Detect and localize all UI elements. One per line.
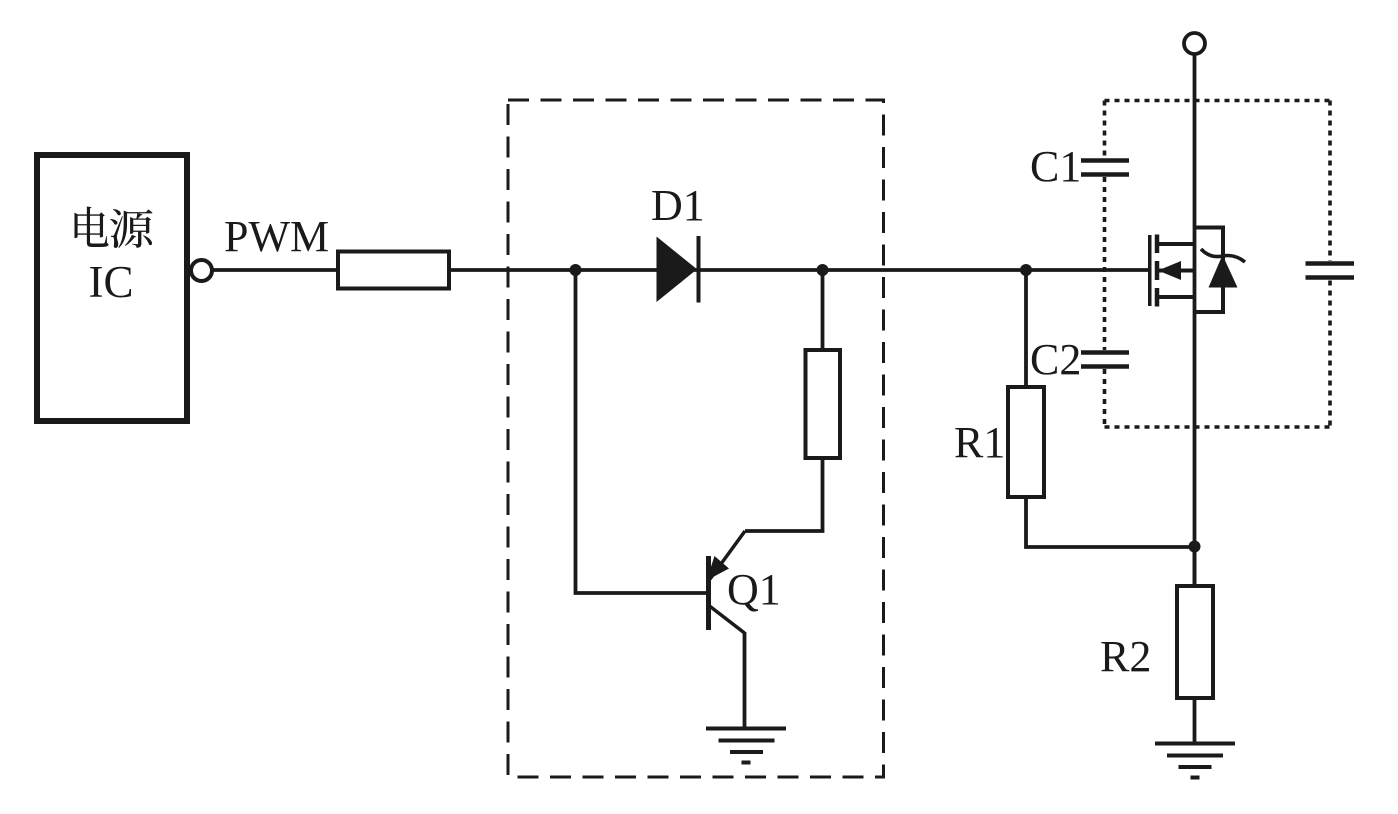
dotted box: MOSFET module outline — [1105, 101, 1331, 428]
wire: source node down to R2 — [1193, 547, 1197, 586]
svg-text:IC: IC — [89, 257, 134, 307]
wire: main gate line from resistor to MOSFET gate — [450, 268, 1148, 272]
svg-text:C2: C2 — [1030, 335, 1081, 384]
node: source junction — [1189, 541, 1201, 553]
resistor (Q1 emitter pull resistor, unlabeled) — [806, 350, 841, 458]
wire: junction down to R1 — [1024, 270, 1028, 387]
node: junction at Q1 base branch — [570, 264, 582, 276]
terminal: PWM output pin circle — [191, 260, 212, 281]
ground (below R2) — [1155, 744, 1235, 778]
resistor (series gate resistor, unlabeled) — [338, 252, 449, 289]
svg-text:R1: R1 — [954, 418, 1005, 467]
label C2 — [1030, 335, 1081, 384]
ground (below Q1) — [706, 729, 786, 763]
resistor R1 — [1008, 387, 1044, 497]
wire: junction down to pull resistor — [821, 270, 825, 350]
resistor R2 — [1177, 586, 1213, 698]
MOSFET Q? (N-channel with body diode) — [1150, 235, 1196, 307]
node PWM label — [224, 212, 329, 261]
svg-text:C1: C1 — [1030, 142, 1081, 191]
label C1 — [1030, 142, 1081, 191]
capacitor C2 — [1081, 353, 1129, 367]
svg-text:R2: R2 — [1100, 632, 1151, 681]
node: junction at R1 branch on gate line — [1020, 264, 1032, 276]
terminal: drain top circle — [1184, 33, 1205, 54]
svg-text:D1: D1 — [651, 181, 705, 230]
label R1 — [954, 418, 1005, 467]
body diode of MOSFET — [1196, 228, 1245, 313]
svg-text:Q1: Q1 — [727, 565, 781, 614]
label D1 — [651, 181, 705, 230]
wire: R2 to ground — [1193, 698, 1197, 744]
power IC block U? 电源IC — [37, 155, 187, 421]
capacitor (output, right side, unlabeled) — [1306, 264, 1355, 278]
wire: R1 bottom to source node — [1026, 497, 1195, 547]
transistor Q1 (PNP) — [707, 531, 746, 633]
wire: pull resistor to Q1 emitter — [745, 458, 823, 531]
svg-text:PWM: PWM — [224, 212, 329, 261]
diode D1 — [657, 236, 699, 303]
wire: base branch from junction to Q1 base — [576, 270, 707, 593]
wire: PWM pin to series resistor — [213, 268, 338, 272]
label R2 — [1100, 632, 1151, 681]
wire: Q1 collector to ground — [743, 632, 747, 729]
wire: drain terminal down through MOSFET to source node — [1193, 54, 1197, 584]
node: junction at pull resistor branch — [817, 264, 829, 276]
label Q1 — [727, 565, 781, 614]
dashed box: discharge accelerating subcircuit — [508, 100, 884, 777]
capacitor C1 — [1081, 161, 1129, 175]
